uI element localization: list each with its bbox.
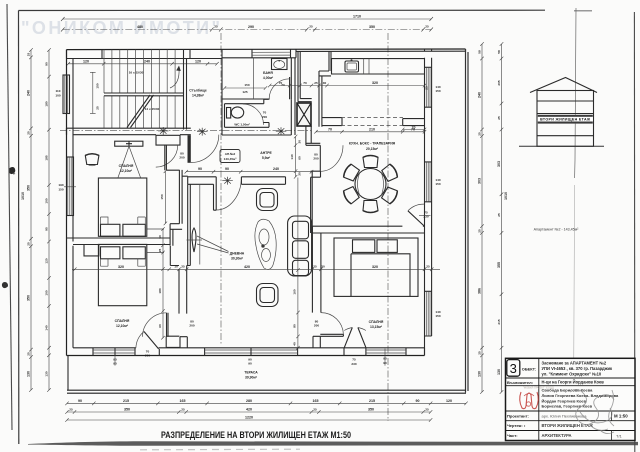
bedroom2 right wall <box>136 266 190 358</box>
window left bedroom1 <box>67 157 74 216</box>
svg-text:WC 1,50м²: WC 1,50м² <box>234 123 249 127</box>
svg-text:350: 350 <box>27 185 31 191</box>
svg-text:290: 290 <box>248 25 254 29</box>
svg-text:25: 25 <box>27 131 31 135</box>
svg-text:150: 150 <box>160 194 164 199</box>
svg-text:ДНЕВНА: ДНЕВНА <box>230 252 245 256</box>
wall hall/dining south stub <box>311 171 321 177</box>
svg-text:16 х 15/30: 16 х 15/30 <box>129 71 144 75</box>
window bedroom2 bottom <box>93 350 135 353</box>
svg-text:39,90м²: 39,90м² <box>245 376 258 380</box>
svg-text:140: 140 <box>290 154 294 159</box>
kitchen sink <box>345 61 359 72</box>
svg-text:130: 130 <box>27 371 31 377</box>
door to bath <box>269 77 291 99</box>
svg-text:480: 480 <box>137 25 143 29</box>
window right 1 <box>425 67 432 107</box>
left exterior wall <box>55 50 76 356</box>
wall below stairwell <box>67 128 191 135</box>
svg-text:20,15м²: 20,15м² <box>366 147 379 151</box>
bottom dimension row 2 <box>65 408 432 414</box>
svg-text:120: 120 <box>83 60 89 64</box>
svg-text:230: 230 <box>423 215 428 219</box>
scan blob 1 <box>9 167 16 174</box>
svg-text:165: 165 <box>313 399 319 403</box>
svg-text:205: 205 <box>497 80 501 85</box>
toilet WC <box>227 107 250 127</box>
svg-text:Йордан Георгиев Коев: Йордан Георгиев Коев <box>542 398 587 403</box>
svg-text:350: 350 <box>368 408 374 412</box>
bottom dimension 120 right <box>431 399 468 405</box>
svg-text:70: 70 <box>263 111 267 115</box>
svg-text:25: 25 <box>478 351 482 355</box>
svg-text:Н-ци на Георги Йорданов Коев: Н-ци на Георги Йорданов Коев <box>542 380 605 385</box>
stair up arrow <box>170 68 179 88</box>
svg-text:185: 185 <box>45 155 49 160</box>
window right 2 <box>425 162 432 202</box>
svg-text:200: 200 <box>189 324 194 328</box>
bedroom1 desk <box>115 141 143 178</box>
svg-text:25: 25 <box>181 408 185 412</box>
svg-text:215: 215 <box>123 399 129 403</box>
svg-text:25: 25 <box>426 265 430 269</box>
svg-text:БАНЯ: БАНЯ <box>263 71 273 75</box>
svg-text:70: 70 <box>328 127 332 131</box>
kitchen counter <box>332 59 425 74</box>
svg-text:АРХИТЕКТУРА: АРХИТЕКТУРА <box>542 433 572 438</box>
svg-text:25: 25 <box>314 81 318 85</box>
svg-text:М 1:50: М 1:50 <box>614 413 628 418</box>
svg-text:150: 150 <box>244 83 249 87</box>
svg-text:АП.№2: АП.№2 <box>225 152 236 156</box>
svg-text:Част:: Част: <box>507 433 518 438</box>
number cell <box>507 360 520 377</box>
door hall to bedroom1 <box>156 135 185 167</box>
svg-text:90: 90 <box>78 399 82 403</box>
column X <box>297 103 311 126</box>
svg-text:арх. Юлия Пехливанова: арх. Юлия Пехливанова <box>542 413 588 418</box>
svg-text:320: 320 <box>118 265 124 269</box>
svg-text:150: 150 <box>58 188 63 192</box>
svg-text:303: 303 <box>497 161 501 167</box>
svg-text:150: 150 <box>435 314 440 318</box>
interior dim line bedroom2 <box>158 227 165 339</box>
svg-text:90: 90 <box>416 399 420 403</box>
svg-text:90: 90 <box>198 167 202 171</box>
svg-text:12,10м²: 12,10м² <box>116 324 129 328</box>
svg-text:320: 320 <box>372 265 378 269</box>
svg-text:ОБЕКТ:: ОБЕКТ: <box>522 367 537 372</box>
frame top border <box>19 9 546 11</box>
svg-text:40: 40 <box>293 342 297 346</box>
interior dim 150 <box>160 169 167 225</box>
svg-text:150: 150 <box>96 83 100 88</box>
svg-text:30: 30 <box>298 140 302 144</box>
living room plant/chair scribble <box>255 219 276 269</box>
svg-text:КУХН. БОКС - ТРАПЕЗАРИЯ: КУХН. БОКС - ТРАПЕЗАРИЯ <box>349 142 396 146</box>
door to bedroom2 <box>143 313 195 337</box>
living room west wall <box>188 184 191 265</box>
svg-text:165: 165 <box>180 399 186 403</box>
living/dining divider wall <box>311 171 313 233</box>
svg-text:25: 25 <box>313 408 317 412</box>
stair treads upper flight <box>104 50 175 93</box>
svg-text:50: 50 <box>158 235 162 239</box>
bottom dimension row 3 total 1220 <box>65 416 432 422</box>
door bedroom3 to terrace (double swing) <box>344 328 387 366</box>
svg-text:1010: 1010 <box>21 192 25 200</box>
frame right border <box>633 12 635 452</box>
svg-text:350: 350 <box>27 295 31 301</box>
svg-text:58: 58 <box>478 50 482 54</box>
svg-text:58: 58 <box>497 50 501 54</box>
mid horizontal dimension line 320/10/25/420/25/10/320/25 <box>72 265 440 272</box>
svg-text:12,10м²: 12,10м² <box>120 169 133 173</box>
interior dim line bedroom3 side <box>293 178 300 350</box>
svg-text:120: 120 <box>195 60 201 64</box>
svg-text:Възложител:: Възложител: <box>507 380 533 385</box>
svg-text:125: 125 <box>242 90 247 94</box>
top dimension line 1270 <box>61 15 433 22</box>
bath partition <box>253 58 255 99</box>
svg-text:200: 200 <box>145 354 150 358</box>
second floor dark band <box>538 115 593 124</box>
svg-text:420: 420 <box>244 265 250 269</box>
axis line vertical B <box>387 33 389 421</box>
svg-text:350: 350 <box>369 25 375 29</box>
svg-text:190: 190 <box>58 183 63 187</box>
living room sofa <box>288 216 312 276</box>
kitchen dimension 70/210/70 <box>314 127 426 133</box>
bath/wc divider wall <box>222 86 270 104</box>
svg-text:4,00м²: 4,00м² <box>263 76 274 80</box>
svg-text:210: 210 <box>369 127 375 131</box>
svg-text:143,45м²: 143,45м² <box>224 157 237 161</box>
svg-text:240: 240 <box>273 167 279 171</box>
svg-text:240: 240 <box>144 60 150 64</box>
svg-text:1220: 1220 <box>245 416 253 420</box>
top wall dimension 120/240/120 <box>67 60 219 66</box>
building body <box>537 91 594 147</box>
svg-text:ТЕРАСА: ТЕРАСА <box>244 371 258 375</box>
ground line <box>519 145 604 147</box>
right dimension chain outer <box>497 42 508 394</box>
svg-text:150: 150 <box>435 182 440 186</box>
dim chain at door <box>290 135 301 179</box>
svg-text:280: 280 <box>246 399 252 403</box>
svg-text:25: 25 <box>478 229 482 233</box>
svg-text:386: 386 <box>478 288 482 294</box>
svg-text:215: 215 <box>369 399 375 403</box>
hall dimension 90/90/240 <box>185 167 314 174</box>
svg-text:100: 100 <box>55 94 60 98</box>
svg-text:25: 25 <box>27 352 31 356</box>
top dimension line segments 480/25/290/25/350/25 <box>61 25 433 32</box>
svg-text:СПАЛНЯ: СПАЛНЯ <box>115 319 130 323</box>
svg-text:25: 25 <box>425 86 429 90</box>
svg-text:200: 200 <box>262 115 267 119</box>
svg-text:25: 25 <box>27 242 31 246</box>
kitchen 320 dimension <box>268 81 429 90</box>
stair landing lines <box>104 93 184 96</box>
svg-text:100: 100 <box>45 198 49 203</box>
svg-text:25: 25 <box>425 25 429 29</box>
wall below column <box>306 126 320 145</box>
svg-text:ВТОРИ ЖИЛИЩЕН ЕТАЖ: ВТОРИ ЖИЛИЩЕН ЕТАЖ <box>542 423 594 428</box>
svg-text:30,30м²: 30,30м² <box>231 257 244 261</box>
svg-text:120: 120 <box>45 258 49 263</box>
svg-text:95: 95 <box>45 227 49 231</box>
svg-text:215: 215 <box>497 319 501 324</box>
svg-text:320: 320 <box>372 81 378 85</box>
svg-text:3: 3 <box>510 361 517 376</box>
svg-text:230: 230 <box>351 362 356 366</box>
axis line vertical A <box>220 33 222 345</box>
svg-text:Чертеж: •: Чертеж: • <box>507 423 526 428</box>
svg-text:130: 130 <box>45 371 49 376</box>
bath sink <box>272 59 288 70</box>
wall bedroom1/bedroom2 divider <box>67 229 171 266</box>
svg-text:80: 80 <box>293 324 297 328</box>
axis marker node 2 <box>197 128 208 136</box>
svg-text:1710: 1710 <box>353 15 361 19</box>
bed bedroom2 <box>98 244 146 305</box>
svg-text:Лилия Георгиева Коева- Владими: Лилия Георгиева Коева- Владимирова <box>542 393 620 398</box>
window living terrace door <box>205 350 298 353</box>
svg-text:90: 90 <box>45 62 49 66</box>
svg-text:350: 350 <box>124 408 130 412</box>
svg-text:25: 25 <box>69 408 73 412</box>
bedroom1 right wall <box>165 145 182 246</box>
stair treads lower flight <box>104 96 175 129</box>
svg-text:25: 25 <box>497 116 501 120</box>
svg-text:100: 100 <box>45 290 49 295</box>
svg-text:130: 130 <box>478 371 482 377</box>
svg-text:Т/1: Т/1 <box>616 434 623 439</box>
apartment box label <box>220 150 240 163</box>
scan blob 2 <box>2 282 8 288</box>
svg-text:150: 150 <box>435 89 440 93</box>
left dimension chain outer <box>21 48 33 392</box>
red logo stamp <box>520 392 539 409</box>
svg-text:25: 25 <box>214 25 218 29</box>
stair right wall <box>184 59 187 130</box>
svg-text:240: 240 <box>478 92 482 98</box>
svg-text:УПИ VI-4653 , кв. 370 гр. Паза: УПИ VI-4653 , кв. 370 гр. Пазарджик <box>542 366 614 371</box>
row lines <box>506 378 636 431</box>
svg-text:ВТОРИ ЖИЛИЩЕН ЕТАЖ: ВТОРИ ЖИЛИЩЕН ЕТАЖ <box>540 118 591 122</box>
svg-text:РАЗПРЕДЕЛЕНИЕ НА ВТОРИ ЖИЛИЩЕН: РАЗПРЕДЕЛЕНИЕ НА ВТОРИ ЖИЛИЩЕН ЕТАЖ М1:5… <box>161 429 351 440</box>
kitchen west wall <box>298 51 312 101</box>
svg-text:90: 90 <box>383 357 387 361</box>
svg-text:70: 70 <box>279 81 283 85</box>
door to wc <box>243 104 268 125</box>
stairwell <box>90 50 207 130</box>
svg-text:СПАЛНЯ: СПАЛНЯ <box>369 320 384 324</box>
svg-text:"ОНИКОМ ИМОТИ": "ОНИКОМ ИМОТИ" <box>21 18 222 38</box>
wc walls <box>222 58 291 135</box>
label/content divider <box>538 358 540 440</box>
window bedroom3 bottom <box>366 350 406 353</box>
svg-text:200: 200 <box>179 156 184 160</box>
window left stair <box>63 75 70 114</box>
svg-text:90: 90 <box>225 167 229 171</box>
axis marker node 1 <box>158 127 169 135</box>
svg-text:1010: 1010 <box>504 192 508 200</box>
svg-text:25: 25 <box>181 265 185 269</box>
svg-text:14 х 15/30: 14 х 15/30 <box>145 107 160 111</box>
hall bottom wall + arch to living room <box>182 176 285 210</box>
svg-text:90: 90 <box>248 362 252 366</box>
floor lines <box>537 101 594 136</box>
svg-text:60: 60 <box>298 156 302 160</box>
svg-text:120: 120 <box>446 399 452 403</box>
dashed bar counter <box>341 118 403 126</box>
svg-text:25: 25 <box>313 265 317 269</box>
svg-text:25: 25 <box>96 106 100 110</box>
window right 3 <box>425 291 432 336</box>
svg-text:90: 90 <box>383 361 387 365</box>
living room armchair A <box>257 189 278 211</box>
terrace outline <box>67 356 466 394</box>
svg-text:25: 25 <box>478 132 482 136</box>
svg-text:200: 200 <box>314 324 319 328</box>
svg-text:СПАЛНЯ: СПАЛНЯ <box>119 164 134 168</box>
right column: elevation sketch <box>519 8 604 359</box>
svg-text:Заснемане за АПАРТАМЕНТ №2: Заснемане за АПАРТАМЕНТ №2 <box>542 360 607 365</box>
svg-text:30: 30 <box>321 265 325 269</box>
svg-text:25: 25 <box>158 249 162 253</box>
svg-text:10: 10 <box>174 265 178 269</box>
kitchen left stub wall <box>322 118 342 126</box>
kitchen / bedroom3 wall <box>312 226 424 233</box>
svg-text:14,38м²: 14,38м² <box>192 94 205 98</box>
title block <box>506 358 636 440</box>
svg-text:Стълбище: Стълбище <box>189 89 207 93</box>
svg-text:130: 130 <box>497 369 501 375</box>
bottom exterior wall band <box>67 348 425 366</box>
svg-text:30: 30 <box>298 172 302 176</box>
svg-text:Апартамент №2 - 143,45м²: Апартамент №2 - 143,45м² <box>534 228 579 232</box>
left dimension chain inner <box>45 48 51 392</box>
svg-text:355: 355 <box>497 262 501 268</box>
svg-text:140: 140 <box>45 325 49 330</box>
svg-text:70: 70 <box>303 81 307 85</box>
svg-text:180: 180 <box>158 288 162 293</box>
svg-text:303: 303 <box>478 178 482 184</box>
svg-text:180: 180 <box>45 101 49 106</box>
svg-text:30: 30 <box>323 81 327 85</box>
right exterior wall (kitchen side) <box>425 58 441 356</box>
tv niche line <box>199 185 201 265</box>
svg-text:70: 70 <box>411 127 415 131</box>
stair break line <box>127 95 154 128</box>
svg-text:160: 160 <box>293 289 297 294</box>
svg-text:25: 25 <box>309 25 313 29</box>
TV <box>187 228 229 253</box>
vestibule right wall <box>291 58 295 135</box>
axis marker node 4 <box>222 177 233 185</box>
door hall to dining <box>313 145 343 171</box>
svg-text:13,15м²: 13,15м² <box>370 325 383 329</box>
svg-text:ул. "Климент Охридски" №10: ул. "Климент Охридски" №10 <box>542 372 602 377</box>
svg-text:5,9м²: 5,9м² <box>262 156 271 160</box>
svg-text:25: 25 <box>27 53 31 57</box>
axis line horizontal <box>60 130 311 132</box>
door stairwell to hall (leaf+arc) <box>188 135 219 163</box>
living room armchair B <box>257 284 279 307</box>
signature scribbles <box>570 389 614 433</box>
frame left border <box>18 11 20 445</box>
bottom dimension row 1 <box>65 399 432 405</box>
bed bedroom3 <box>334 238 418 296</box>
bed bedroom1 <box>98 178 146 236</box>
svg-text:110: 110 <box>56 89 61 93</box>
right dimension chain inner <box>478 42 484 394</box>
scanned page left edge <box>7 4 12 430</box>
axis marker node 3 <box>276 127 287 135</box>
svg-text:25: 25 <box>425 408 429 412</box>
svg-text:200: 200 <box>313 157 318 161</box>
bottom fuzzy scan band <box>28 441 638 445</box>
svg-text:Проектант:: Проектант: <box>507 413 529 418</box>
svg-text:"МОБИЛ ПРОЕКТ" ЕООД: "МОБИЛ ПРОЕКТ" ЕООД <box>523 386 554 390</box>
elevation centerline <box>575 8 576 178</box>
svg-text:420: 420 <box>246 408 252 412</box>
dining table with chairs <box>342 155 399 212</box>
right outer terrace edge <box>466 49 469 393</box>
door bedroom3 to dining <box>408 204 431 226</box>
svg-text:60: 60 <box>158 324 162 328</box>
kitchen bottom stub wall <box>401 119 426 132</box>
svg-text:25: 25 <box>497 213 501 217</box>
bedroom1 chair <box>85 154 99 166</box>
exterior top wall band <box>67 49 466 59</box>
door to bedroom3 <box>314 313 343 337</box>
svg-text:240: 240 <box>27 90 31 96</box>
living room / bedroom3 wall <box>312 233 321 348</box>
stair left landing edge <box>90 72 96 113</box>
roof <box>530 78 597 93</box>
svg-text:АНТРЕ: АНТРЕ <box>260 151 272 155</box>
